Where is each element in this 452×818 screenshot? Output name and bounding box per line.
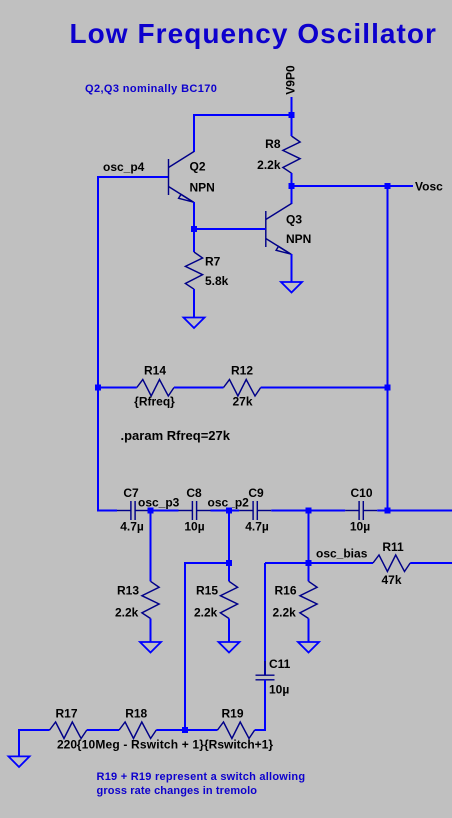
node junction R8 bottom xyxy=(289,183,295,189)
node junction cap row / right rail xyxy=(385,508,391,514)
wire R17 to R18 xyxy=(87,729,119,731)
wire bottom row left end xyxy=(19,729,50,731)
svg-text:osc_p4: osc_p4 xyxy=(103,160,145,174)
ground (Q3) xyxy=(281,282,302,293)
svg-text:gross rate changes in tremolo: gross rate changes in tremolo xyxy=(97,785,258,797)
svg-text:Q2,Q3 nominally BC170: Q2,Q3 nominally BC170 xyxy=(85,83,217,95)
transistor Q3 xyxy=(266,204,292,255)
svg-text:C8: C8 xyxy=(186,486,202,500)
wire R13 drop xyxy=(150,511,152,582)
wire R8 top lead xyxy=(291,115,293,136)
wire osc_bias drop xyxy=(308,511,310,582)
wire Q3 base horizontal xyxy=(194,228,266,230)
resistor R15 xyxy=(220,581,237,618)
wire C8 to C9 xyxy=(211,510,240,512)
svg-text:2.2k: 2.2k xyxy=(194,606,218,620)
svg-text:osc_p3: osc_p3 xyxy=(138,496,180,510)
node junction Vosc rail xyxy=(385,183,391,189)
wire R16 to ground xyxy=(308,619,310,643)
svg-text:{Rswitch+1}: {Rswitch+1} xyxy=(204,738,273,752)
wire R19 to C11 riser xyxy=(255,729,266,731)
capacitor C7 xyxy=(117,501,149,520)
resistor R12 xyxy=(224,380,261,397)
svg-text:C11: C11 xyxy=(269,657,291,671)
resistor R11 xyxy=(373,555,410,572)
wire bottom left down to ground xyxy=(18,729,20,756)
wire C7 to C8 xyxy=(149,510,179,512)
svg-text:NPN: NPN xyxy=(190,181,215,195)
wire left rail vertical xyxy=(97,176,99,512)
resistor R7 xyxy=(185,252,202,289)
node junction V9P0/R8/collector xyxy=(289,112,295,118)
node junction cap row / R13 xyxy=(148,508,154,514)
svg-text:2.2k: 2.2k xyxy=(257,158,281,172)
svg-text:47k: 47k xyxy=(381,573,401,587)
svg-text:10µ: 10µ xyxy=(184,520,204,534)
svg-text:R19: R19 xyxy=(221,707,243,721)
svg-text:2.2k: 2.2k xyxy=(273,606,297,620)
wire C9 to C10 xyxy=(271,510,345,512)
svg-text:5.8k: 5.8k xyxy=(205,274,229,288)
wire R15 to ground xyxy=(228,619,230,643)
node junction cap row / osc_p2 drop xyxy=(226,508,232,514)
ground (R7) xyxy=(184,318,205,329)
transistor Q2 xyxy=(169,152,195,203)
svg-text:R11: R11 xyxy=(382,540,404,554)
svg-text:10µ: 10µ xyxy=(350,520,370,534)
wire top horizontal Q2 collector to R8 xyxy=(194,114,292,116)
svg-text:R17: R17 xyxy=(55,707,77,721)
svg-text:R18: R18 xyxy=(125,707,147,721)
svg-text:C9: C9 xyxy=(248,486,264,500)
wire long vertical to bottom row xyxy=(184,562,186,731)
capacitor C11 xyxy=(256,661,275,694)
svg-text:Q3: Q3 xyxy=(286,213,302,227)
svg-text:220: 220 xyxy=(57,738,77,752)
node junction osc_bias cross xyxy=(306,560,312,566)
ground (R13) xyxy=(140,642,161,653)
svg-text:osc_bias: osc_bias xyxy=(316,547,368,561)
svg-text:27k: 27k xyxy=(232,395,252,409)
ground (R16) xyxy=(298,642,319,653)
wire R13 to ground xyxy=(150,619,152,643)
svg-text:{Rfreq}: {Rfreq} xyxy=(134,395,175,409)
node junction cap row / osc_bias drop xyxy=(306,508,312,514)
wire Q3 emitter to ground xyxy=(291,254,293,282)
wire R8 bottom lead to Q3 collector xyxy=(291,173,293,204)
wire osc_p2 drop xyxy=(228,511,230,582)
wire Q2 collector lead xyxy=(193,114,195,152)
wire right rail vertical xyxy=(387,186,389,512)
svg-text:R7: R7 xyxy=(205,255,221,269)
svg-text:.param Rfreq=27k: .param Rfreq=27k xyxy=(121,428,231,443)
wire between R14 and R12 xyxy=(174,387,224,389)
svg-text:R12: R12 xyxy=(231,364,253,378)
node junction Q2 emitter / Q3 base / R7 xyxy=(191,226,197,232)
wire R11 to right edge xyxy=(410,562,452,564)
resistor R13 xyxy=(142,581,159,618)
wire C11 top corner to osc_bias node xyxy=(265,562,309,564)
resistor R16 xyxy=(300,581,317,618)
svg-text:C7: C7 xyxy=(123,486,139,500)
wire osc_p4 horizontal to Q2 base xyxy=(98,176,169,178)
resistor R19 xyxy=(218,722,255,739)
wire C11 top lead xyxy=(264,563,266,675)
svg-text:R15: R15 xyxy=(196,584,218,598)
wire C10 to right edge xyxy=(377,510,452,512)
net flag V9P0 xyxy=(284,65,298,115)
capacitor C10 xyxy=(345,501,377,520)
wire R7 to ground xyxy=(193,289,195,318)
svg-text:R19 + R19 represent a switch a: R19 + R19 represent a switch allowing xyxy=(97,771,306,783)
node junction right rail / R12 xyxy=(385,385,391,391)
svg-text:2.2k: 2.2k xyxy=(115,606,139,620)
svg-text:Low Frequency Oscillator: Low Frequency Oscillator xyxy=(70,18,438,49)
wire Q2 emitter to base node xyxy=(193,202,195,252)
wire cap row: rail to C7 xyxy=(98,510,117,512)
wire C11 bottom lead xyxy=(264,680,266,731)
svg-text:Q2: Q2 xyxy=(190,160,206,174)
resistor R8 xyxy=(283,136,300,173)
capacitor C9 xyxy=(239,501,271,520)
node junction bottom row / long vertical xyxy=(182,727,188,733)
wire Vosc horizontal xyxy=(292,185,414,187)
resistor R14 xyxy=(137,380,174,397)
node junction osc_p2 drop / left branch xyxy=(226,560,232,566)
svg-text:R8: R8 xyxy=(265,137,281,151)
resistor R17 xyxy=(50,722,87,739)
svg-text:C10: C10 xyxy=(350,486,372,500)
wire R12 to right rail xyxy=(261,387,388,389)
wire row2 left segment xyxy=(98,387,137,389)
svg-text:NPN: NPN xyxy=(286,232,311,246)
svg-text:R14: R14 xyxy=(144,364,166,378)
svg-text:Vosc: Vosc xyxy=(415,180,443,194)
resistor R18 xyxy=(119,722,156,739)
svg-text:R13: R13 xyxy=(117,584,139,598)
ground (bottom left) xyxy=(9,756,30,767)
svg-text:V9P0: V9P0 xyxy=(284,65,298,95)
wire osc_bias node to R11 xyxy=(309,562,374,564)
svg-text:R16: R16 xyxy=(275,584,297,598)
node junction left rail / R14 xyxy=(95,385,101,391)
capacitor C8 xyxy=(179,501,211,520)
svg-text:{10Meg - Rswitch + 1}: {10Meg - Rswitch + 1} xyxy=(77,738,204,752)
svg-text:osc_p2: osc_p2 xyxy=(208,496,250,510)
wire R18 to R19 xyxy=(156,729,217,731)
svg-text:10µ: 10µ xyxy=(269,683,289,697)
svg-text:4.7µ: 4.7µ xyxy=(245,520,269,534)
svg-text:4.7µ: 4.7µ xyxy=(120,520,144,534)
wire osc_p2 branch left xyxy=(185,562,229,564)
ground (R15) xyxy=(219,642,240,653)
